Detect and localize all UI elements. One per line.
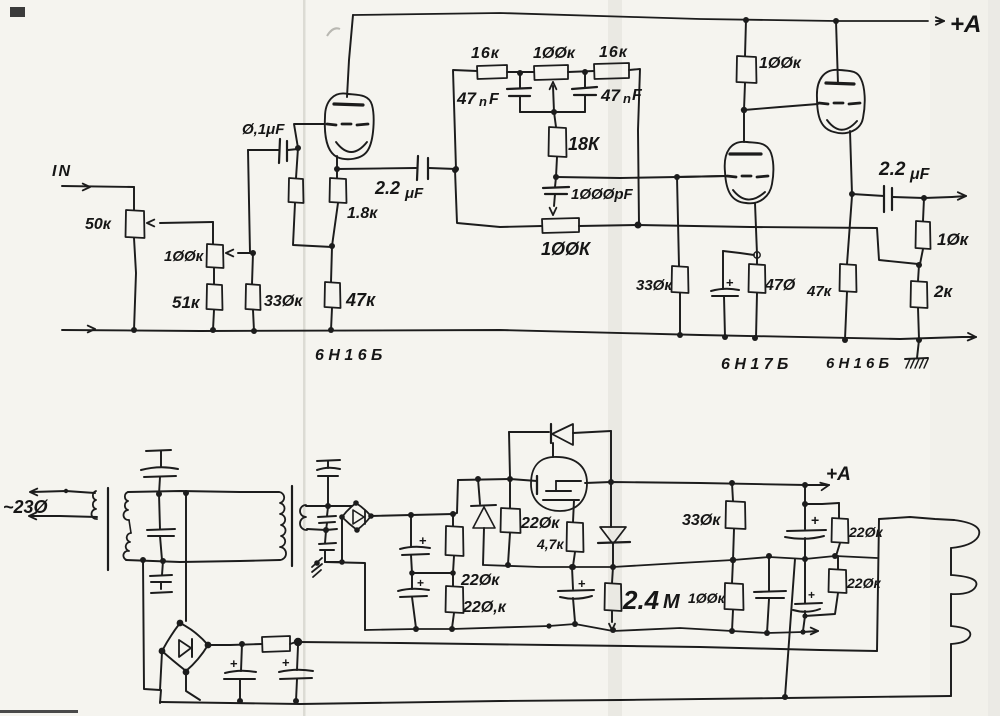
svg-text:+: + bbox=[726, 275, 734, 290]
svg-text:1ØØк: 1ØØк bbox=[164, 248, 205, 265]
svg-text:1ØØк: 1ØØк bbox=[688, 590, 726, 606]
svg-text:+A: +A bbox=[950, 11, 981, 38]
svg-text:Ø,1μF: Ø,1μF bbox=[242, 121, 285, 138]
svg-text:6 Н 1 7 Б: 6 Н 1 7 Б bbox=[721, 356, 788, 373]
svg-text:22Øк: 22Øк bbox=[520, 515, 560, 532]
svg-text:16к: 16к bbox=[599, 44, 628, 61]
svg-text:2.2: 2.2 bbox=[374, 178, 400, 198]
svg-text:+: + bbox=[811, 512, 819, 528]
svg-text:n: n bbox=[623, 91, 631, 106]
svg-text:2.4: 2.4 bbox=[622, 585, 660, 615]
svg-text:+: + bbox=[808, 588, 815, 602]
svg-text:1Øк: 1Øк bbox=[937, 230, 970, 249]
svg-text:1.8к: 1.8к bbox=[347, 205, 378, 222]
svg-text:4,7к: 4,7к bbox=[536, 536, 564, 552]
svg-text:16к: 16к bbox=[471, 45, 500, 62]
svg-text:47: 47 bbox=[600, 86, 621, 105]
svg-text:μF: μF bbox=[404, 185, 424, 202]
svg-text:33Øк: 33Øк bbox=[636, 277, 673, 294]
svg-text:1ØØØpF: 1ØØØpF bbox=[571, 186, 634, 203]
svg-text:47: 47 bbox=[456, 89, 477, 108]
svg-text:М: М bbox=[663, 591, 681, 613]
svg-text:47к: 47к bbox=[806, 283, 833, 300]
svg-text:+: + bbox=[417, 576, 424, 590]
svg-text:IN: IN bbox=[52, 163, 72, 180]
svg-text:2к: 2к bbox=[933, 282, 953, 301]
svg-text:22Øк: 22Øк bbox=[460, 572, 500, 589]
svg-text:6 Н 1 6 Б: 6 Н 1 6 Б bbox=[826, 355, 890, 372]
svg-text:18К: 18К bbox=[568, 134, 601, 154]
svg-text:~23Ø: ~23Ø bbox=[3, 497, 49, 517]
svg-text:+: + bbox=[282, 655, 290, 670]
svg-text:+: + bbox=[230, 656, 238, 671]
svg-text:μF: μF bbox=[909, 166, 931, 183]
svg-text:33Øк: 33Øк bbox=[682, 512, 721, 529]
svg-text:50к: 50к bbox=[85, 216, 112, 233]
svg-text:2.2: 2.2 bbox=[878, 159, 906, 180]
svg-text:22Øк: 22Øк bbox=[846, 575, 881, 591]
svg-text:6 Н 1 6 Б: 6 Н 1 6 Б bbox=[315, 347, 382, 364]
svg-text:F: F bbox=[489, 91, 500, 108]
svg-text:47Ø: 47Ø bbox=[764, 277, 796, 294]
svg-text:1ØØк: 1ØØк bbox=[759, 55, 802, 72]
svg-text:1ØØк: 1ØØк bbox=[533, 45, 576, 62]
svg-text:51к: 51к bbox=[172, 293, 201, 312]
svg-text:n: n bbox=[479, 94, 487, 109]
svg-text:F: F bbox=[632, 87, 643, 104]
svg-text:33Øк: 33Øк bbox=[264, 293, 303, 310]
svg-text:1ØØК: 1ØØК bbox=[541, 239, 592, 259]
svg-text:47к: 47к bbox=[345, 290, 376, 310]
svg-text:+A: +A bbox=[826, 464, 851, 485]
svg-text:+: + bbox=[419, 533, 427, 548]
svg-text:+: + bbox=[578, 576, 586, 591]
svg-text:22Ø,к: 22Ø,к bbox=[462, 599, 507, 616]
